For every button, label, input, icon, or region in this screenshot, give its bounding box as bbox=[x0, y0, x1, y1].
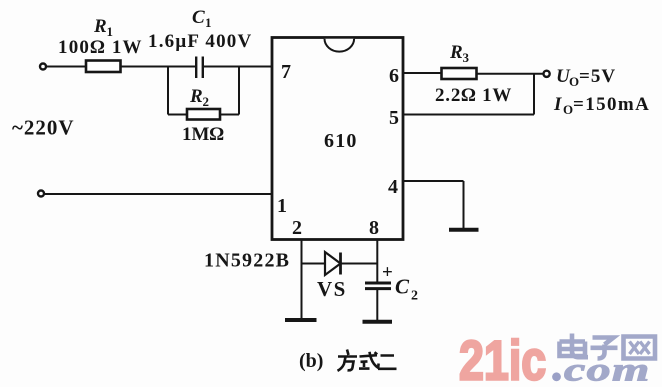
ground C2 bbox=[363, 320, 393, 324]
svg-text:3: 3 bbox=[463, 50, 470, 65]
wire to R2 left bbox=[168, 114, 187, 116]
wire pin4 vertical down bbox=[463, 181, 465, 228]
label UO=5V bbox=[556, 66, 616, 89]
input terminal bottom bbox=[38, 191, 44, 197]
wire R2 branch right vertical bbox=[238, 67, 240, 115]
watermark dot bbox=[552, 372, 561, 381]
svg-text:1: 1 bbox=[277, 195, 287, 217]
svg-text:C: C bbox=[192, 7, 205, 28]
svg-text:+: + bbox=[382, 262, 393, 283]
resistor R1 bbox=[86, 61, 121, 73]
input terminal top bbox=[40, 64, 46, 70]
svg-text:1MΩ: 1MΩ bbox=[182, 124, 224, 145]
wire pin5 horizontal bbox=[403, 114, 534, 116]
svg-text:5: 5 bbox=[389, 107, 399, 129]
svg-text:100Ω 1W: 100Ω 1W bbox=[58, 37, 143, 58]
wire bottom input to chip pin1 bbox=[45, 193, 273, 195]
resistor R3 bbox=[442, 68, 477, 79]
svg-text:610: 610 bbox=[324, 130, 358, 152]
diode VS bbox=[325, 252, 341, 275]
svg-text:(b): (b) bbox=[299, 350, 323, 372]
wire terminal to R1 bbox=[47, 66, 87, 68]
svg-text:=5V: =5V bbox=[579, 66, 616, 87]
wire C2 to ground bbox=[376, 290, 378, 320]
chip notch bbox=[325, 39, 355, 52]
wire pin5 vertical up to output bbox=[533, 74, 535, 115]
svg-text:~220V: ~220V bbox=[12, 116, 75, 140]
watermark dian zi wang (Chinese) bbox=[560, 334, 656, 359]
svg-text:com: com bbox=[564, 351, 651, 382]
svg-text:C: C bbox=[395, 275, 410, 299]
capacitor C2 bbox=[365, 283, 391, 289]
svg-text:7: 7 bbox=[281, 61, 291, 83]
svg-text:8: 8 bbox=[369, 217, 379, 239]
svg-text:21ic: 21ic bbox=[459, 329, 546, 382]
label R2 bbox=[189, 86, 209, 109]
op-amp U1 chip 610 body bbox=[272, 38, 403, 240]
wire R1 to C1 bbox=[121, 66, 196, 68]
svg-text:2: 2 bbox=[292, 217, 302, 239]
wire pin2 vertical bbox=[301, 240, 303, 318]
svg-text:6: 6 bbox=[389, 65, 399, 87]
wire C1 to chip pin7 bbox=[204, 66, 272, 68]
svg-text:O: O bbox=[569, 74, 579, 89]
wire pin4 horizontal bbox=[403, 180, 464, 182]
svg-text:2.2Ω 1W: 2.2Ω 1W bbox=[435, 85, 512, 106]
svg-text:1: 1 bbox=[205, 15, 212, 30]
svg-text:R: R bbox=[93, 16, 107, 37]
capacitor C1 bbox=[196, 57, 203, 79]
label R3 bbox=[449, 42, 470, 65]
label C1 bbox=[192, 7, 212, 30]
svg-text:2: 2 bbox=[411, 289, 418, 304]
ground pin2 bbox=[285, 318, 317, 322]
svg-text:R: R bbox=[189, 86, 203, 107]
svg-text:4: 4 bbox=[388, 176, 398, 198]
svg-text:=150mA: =150mA bbox=[573, 94, 650, 115]
ground pin4 bbox=[449, 228, 479, 232]
svg-text:VS: VS bbox=[317, 277, 347, 301]
wire pin6 to R3 bbox=[403, 72, 442, 74]
wire R2 branch left vertical bbox=[167, 67, 169, 115]
wire pin2 to diode anode bbox=[302, 263, 326, 265]
resistor R2 bbox=[187, 109, 220, 120]
svg-text:I: I bbox=[553, 94, 562, 115]
svg-text:2: 2 bbox=[203, 94, 210, 109]
wire R2 right bbox=[220, 114, 239, 116]
output terminal bbox=[544, 71, 550, 77]
svg-text:O: O bbox=[563, 102, 573, 117]
svg-text:R: R bbox=[449, 42, 463, 63]
wire diode cathode to pin8 line bbox=[342, 263, 378, 265]
wire R3 to output terminal bbox=[477, 73, 544, 75]
caption fang shi er (Chinese) bbox=[338, 350, 397, 371]
label IO=150mA bbox=[553, 94, 650, 117]
svg-text:1N5922B: 1N5922B bbox=[204, 250, 290, 272]
wire pin8 vertical bbox=[376, 240, 378, 282]
label C2 bbox=[395, 275, 418, 304]
svg-text:1.6μF 400V: 1.6μF 400V bbox=[148, 31, 252, 52]
label R1 bbox=[93, 16, 113, 39]
